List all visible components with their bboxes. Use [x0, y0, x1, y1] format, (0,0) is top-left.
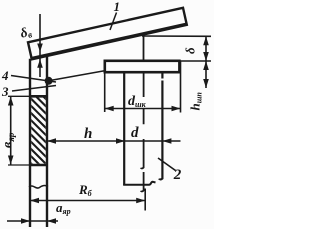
hatch region bottom edge	[29, 164, 48, 167]
hatched yoke section	[24, 70, 56, 210]
leader of label 1	[110, 13, 117, 31]
svg-text:1: 1	[114, 0, 121, 14]
dimension вяр down arrow	[8, 156, 14, 165]
Rб right extension tick	[144, 189, 146, 211]
Rб right arrow	[136, 198, 145, 204]
casing sheet 1 (slanted bar)	[28, 8, 187, 60]
hatch region top edge	[29, 95, 48, 98]
dimension вяр top extension line	[8, 95, 29, 97]
dimension вяр label	[1, 132, 17, 148]
dimension δв up arrow	[37, 59, 43, 68]
weld dot (item 4 target)	[45, 77, 53, 85]
leader of label 2	[158, 158, 176, 171]
leader of label 4	[11, 76, 56, 83]
dшк right extension line	[180, 61, 182, 113]
dimension δв down arrow	[37, 44, 43, 53]
clamp bar (top plate)	[105, 61, 180, 72]
dшк left extension line	[104, 74, 106, 113]
yoke column left edge	[29, 59, 31, 227]
label hшп	[188, 92, 204, 111]
dшк left arrow	[105, 106, 114, 112]
casing sheet 1 thick bottom edge	[31, 24, 187, 59]
svg-text:h: h	[84, 126, 92, 142]
h left arrow	[47, 138, 56, 144]
sheet bottom extension line (delta top ref)	[142, 35, 211, 37]
delta up arrow	[203, 36, 209, 45]
delta down arrow	[203, 52, 209, 61]
dimension вяр bottom extension line	[8, 164, 29, 166]
hшп top arrow	[203, 61, 209, 70]
Rб dimension line	[30, 200, 145, 202]
link line from dot to clamp bar corner	[49, 71, 105, 81]
h right / d left arrow	[116, 138, 125, 144]
tube right wall	[159, 74, 162, 180]
dimension вяр line	[10, 97, 12, 165]
drum shell line	[123, 182, 155, 185]
tube left wall	[123, 74, 125, 186]
dшк right arrow	[172, 106, 181, 112]
Rб left arrow	[30, 198, 39, 204]
dimension δв label	[18, 23, 33, 41]
leader of label 3	[12, 86, 56, 92]
aяр left arrow	[21, 218, 30, 224]
break wave in column	[29, 185, 48, 188]
chain dimension line h and d	[47, 140, 181, 142]
svg-text:4: 4	[1, 68, 9, 83]
yoke column right edge	[46, 55, 48, 227]
dimension δв extension line	[39, 14, 41, 77]
dimension вяр up arrow	[8, 97, 14, 106]
d right arrow	[162, 138, 171, 144]
hшп bottom arrow	[203, 79, 209, 88]
svg-text:3: 3	[1, 84, 9, 99]
aяр dimension line	[7, 220, 58, 222]
bar top extension line (delta bottom ref)	[180, 60, 211, 62]
tube axis line (dash)	[141, 74, 144, 192]
dшк dimension line	[105, 108, 181, 110]
aяр right arrow	[47, 218, 56, 224]
delta / hшп dimension line	[205, 36, 207, 88]
svg-text:d: d	[131, 125, 139, 141]
stud line above clamp bar	[143, 36, 145, 60]
svg-text:δ: δ	[183, 47, 198, 54]
label delta	[183, 47, 198, 54]
